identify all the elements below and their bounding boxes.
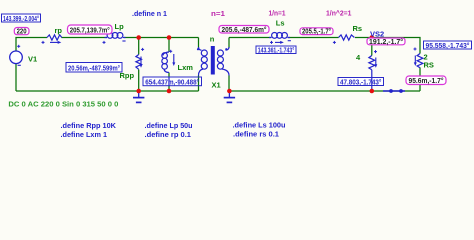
meter oval secondary voltage	[300, 28, 333, 36]
readout box Lxm current	[143, 77, 202, 86]
svg-text:X1: X1	[212, 80, 221, 89]
svg-text:191.2,-1.7°: 191.2,-1.7°	[369, 38, 403, 46]
wire secondary top rail Rs to right corner and down	[355, 38, 420, 54]
svg-text:Rs: Rs	[353, 24, 363, 33]
inductor Lp	[105, 33, 126, 39]
svg-text:V1: V1	[28, 55, 37, 64]
wire Lxm branch top lead	[168, 38, 170, 53]
meter oval VS2 voltage	[367, 38, 405, 46]
svg-text:1/n=1: 1/n=1	[269, 8, 286, 17]
node dot VS2	[370, 35, 375, 40]
svg-text:VS2: VS2	[370, 30, 384, 39]
svg-text:95.6m,-1.7°: 95.6m,-1.7°	[409, 76, 444, 85]
resistor rp	[47, 35, 62, 40]
svg-text:20.56m,-487.599m°: 20.56m,-487.599m°	[68, 64, 120, 73]
svg-text:143.361,-1.743°: 143.361,-1.743°	[258, 46, 295, 55]
node dot Lxm bottom	[167, 89, 172, 94]
svg-text:95.558,-1.743°: 95.558,-1.743°	[426, 41, 470, 50]
readout box load power	[338, 77, 384, 86]
meter oval RS current	[406, 76, 446, 85]
svg-text:.define Ls 100u: .define Ls 100u	[233, 121, 286, 130]
wire secondary top rail transformer to Ls	[229, 37, 271, 39]
svg-text:205.6,-487.6m°: 205.6,-487.6m°	[222, 25, 267, 34]
svg-text:.define n 1: .define n 1	[132, 9, 167, 18]
readout box secondary current	[256, 46, 296, 55]
svg-text:.define Lxm 1: .define Lxm 1	[61, 130, 108, 139]
ground primary	[133, 91, 144, 102]
wire Rpp branch top lead	[138, 38, 140, 55]
svg-text:654.437m,-90.488°: 654.437m,-90.488°	[145, 77, 199, 86]
wire top rail rp to Lp	[62, 37, 108, 39]
meter oval rp current	[68, 25, 113, 35]
svg-text:Lp: Lp	[115, 22, 125, 31]
svg-text:Ls: Ls	[276, 19, 285, 28]
inductor Lxm	[162, 52, 169, 73]
wire secondary bottom rail	[229, 90, 420, 92]
wire blue overlay segment on secondary bottom rail	[383, 90, 405, 92]
wire V1 bottom lead	[15, 64, 17, 91]
transformer X1	[199, 47, 230, 76]
readout box RS voltage	[424, 41, 472, 50]
inductor Ls	[269, 33, 290, 39]
resistor 4 (load)	[371, 38, 373, 56]
svg-text:RS: RS	[424, 61, 434, 70]
meter oval transformer primary voltage	[219, 25, 269, 34]
svg-text:220: 220	[17, 29, 27, 36]
wire RS bottom lead	[419, 68, 421, 92]
resistor Rs	[339, 35, 355, 40]
meter oval source value 220	[14, 28, 29, 36]
svg-text:1/n^2=1: 1/n^2=1	[326, 8, 352, 17]
svg-text:.define rs 0.1: .define rs 0.1	[233, 130, 279, 139]
wire top rail from V1 to rp	[16, 38, 47, 52]
ground secondary	[224, 91, 235, 102]
wire top rail Lp to transformer left pin	[124, 37, 199, 39]
node dot Rpp bottom	[136, 89, 141, 94]
svg-text:.define Lp 50u: .define Lp 50u	[145, 121, 193, 130]
svg-text:rp: rp	[55, 26, 63, 35]
node dot secondary ground	[227, 89, 232, 94]
resistor RS	[417, 54, 423, 68]
resistor Rpp	[136, 55, 142, 70]
svg-text:4: 4	[356, 53, 361, 62]
wire resistor-4 bottom lead (over box)	[371, 70, 373, 91]
node dot primary A	[136, 35, 141, 40]
wire transformer left pin verticals	[198, 38, 200, 49]
svg-text:Lxm: Lxm	[178, 63, 194, 72]
svg-text:n=1: n=1	[211, 9, 225, 18]
svg-text:DC 0 AC 220 0 Sin 0 315 50 0 0: DC 0 AC 220 0 Sin 0 315 50 0 0	[8, 100, 118, 109]
node dot Lxm top	[167, 35, 172, 40]
voltage source V1	[10, 51, 23, 64]
svg-text:143.399,-2.004°: 143.399,-2.004°	[3, 14, 39, 23]
wire Rpp branch bottom lead	[138, 70, 140, 92]
svg-text:205.7,139.7m°: 205.7,139.7m°	[70, 26, 110, 35]
svg-text:205.5,-1.7°: 205.5,-1.7°	[302, 28, 331, 36]
svg-text:.define rp 0.1: .define rp 0.1	[145, 130, 192, 139]
readout box primary current	[66, 63, 122, 73]
wire secondary top rail Ls to Rs	[288, 37, 339, 39]
wire Lxm branch bottom lead	[168, 73, 170, 92]
wire transformer right pin verticals	[228, 38, 230, 49]
svg-text:n: n	[210, 35, 215, 44]
svg-text:.define Rpp 10K: .define Rpp 10K	[61, 121, 117, 130]
wire primary bottom rail	[16, 90, 199, 92]
readout box node V1	[2, 14, 41, 23]
svg-text:47.803,-1.743°: 47.803,-1.743°	[340, 77, 382, 86]
node dot VS2 bottom	[370, 89, 375, 94]
